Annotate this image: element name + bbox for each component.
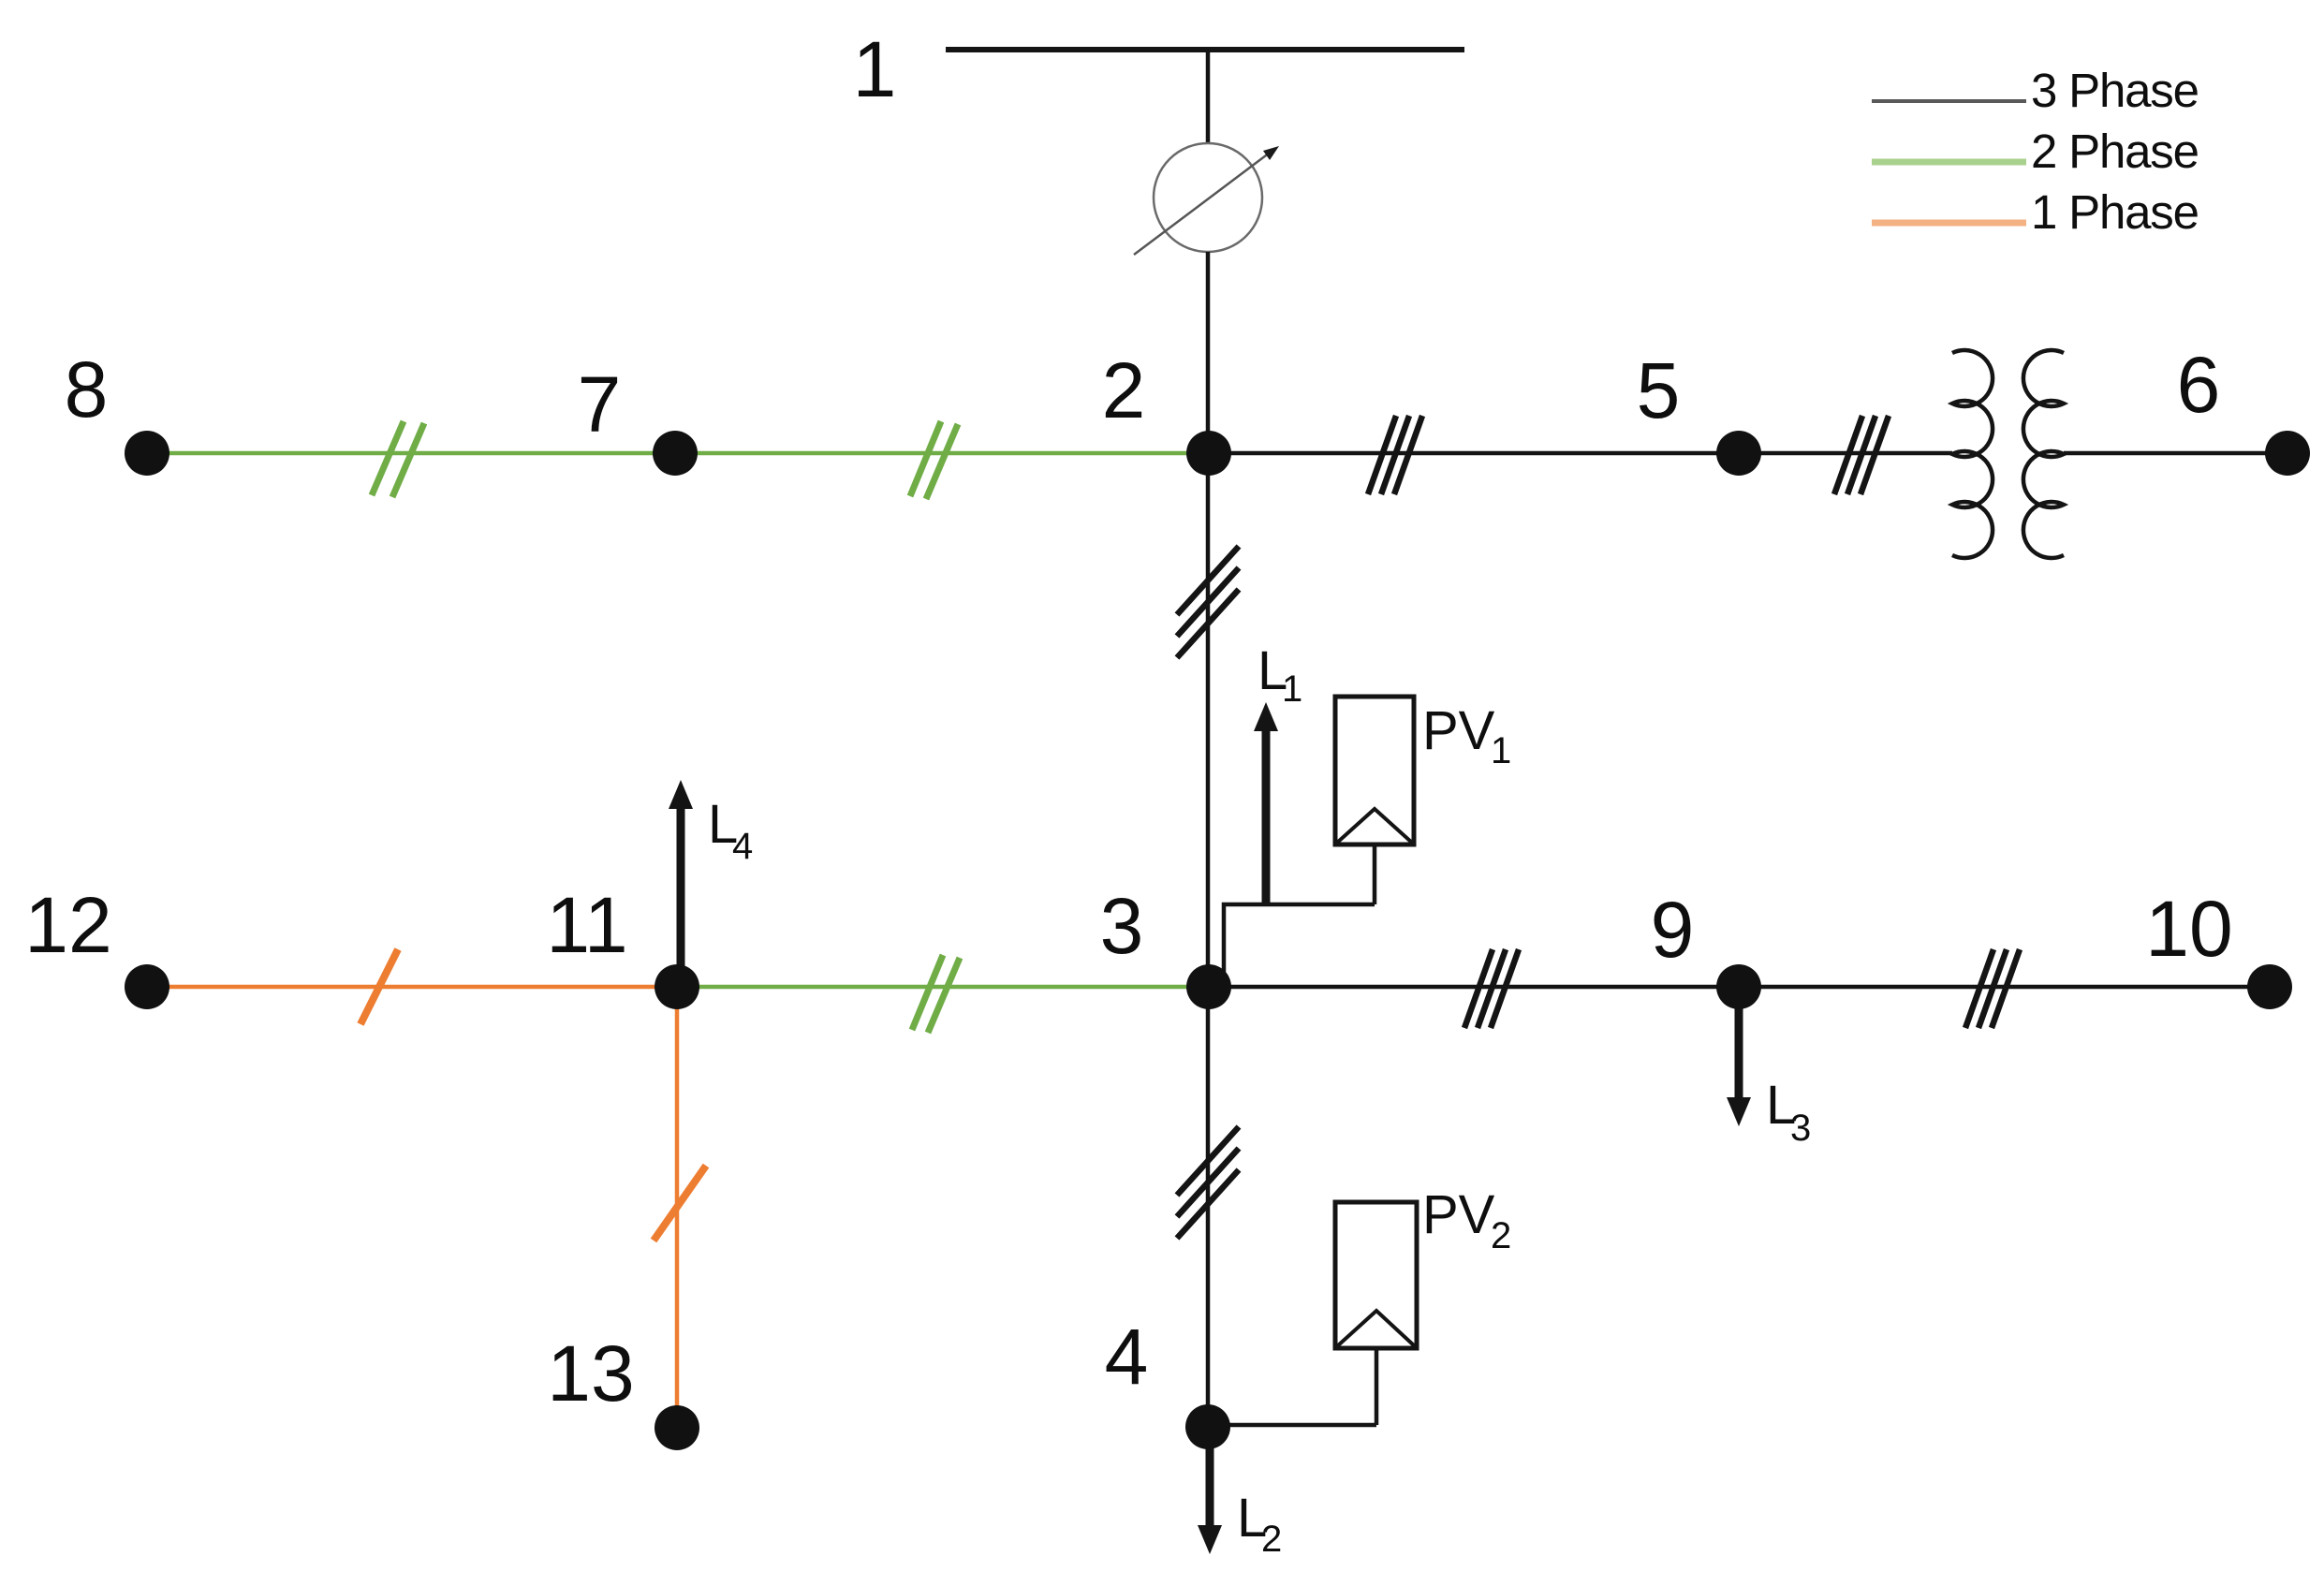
node 5 xyxy=(1716,431,1761,476)
ticks 2-phase between 8 and 7 xyxy=(372,421,424,497)
svg-text:2: 2 xyxy=(1491,1215,1511,1256)
svg-text:13: 13 xyxy=(547,1329,634,1417)
ticks 3-phase on wire 2-3 xyxy=(1177,547,1239,658)
svg-text:1: 1 xyxy=(1282,668,1302,710)
svg-text:2: 2 xyxy=(1261,1519,1282,1560)
ticks 2-phase between 11 and 3 xyxy=(912,955,960,1033)
wire busbar to regulator xyxy=(1206,50,1211,144)
svg-text:1: 1 xyxy=(853,25,897,113)
node 2 xyxy=(1186,431,1231,476)
transformer T1 primary winding xyxy=(1952,350,1993,558)
wire node2 to node3 (3 phase) xyxy=(1206,453,1211,987)
legend 1 phase sample line xyxy=(1872,220,2026,227)
ticks 3-phase on wire 3-4 xyxy=(1177,1127,1239,1239)
svg-text:1: 1 xyxy=(1491,730,1511,771)
node 12 xyxy=(125,964,169,1009)
node 10 xyxy=(2247,964,2292,1009)
legend 3 phase sample line xyxy=(1872,99,2026,103)
PV2 chevron xyxy=(1337,1311,1415,1346)
svg-text:PV: PV xyxy=(1422,700,1495,761)
ticks 3-phase between 2 and 5 xyxy=(1368,416,1422,494)
voltage regulator arrow xyxy=(1134,153,1270,255)
tick 1-phase between 12 and 11 xyxy=(360,949,398,1024)
node 7 xyxy=(653,431,698,476)
ticks 3-phase between 3 and 9 xyxy=(1464,949,1519,1028)
PV2 generator box xyxy=(1335,1202,1417,1348)
svg-text:PV: PV xyxy=(1422,1184,1495,1245)
PV1 generator box xyxy=(1335,697,1414,844)
node 9 xyxy=(1716,964,1761,1009)
svg-text:3: 3 xyxy=(1790,1108,1811,1149)
svg-text:3 Phase: 3 Phase xyxy=(2031,64,2199,117)
wire PV1/L1 elbow to node3 xyxy=(1224,904,1375,974)
svg-text:2 Phase: 2 Phase xyxy=(2031,125,2199,178)
load L1 arrow xyxy=(1262,728,1271,904)
svg-text:3: 3 xyxy=(1100,882,1144,970)
node 11 xyxy=(655,964,699,1009)
bus 1 busbar xyxy=(946,47,1464,52)
PV1 stem xyxy=(1373,844,1377,904)
node 13 xyxy=(655,1405,699,1450)
svg-text:4: 4 xyxy=(732,826,753,867)
wire node3 to node4 (3 phase) xyxy=(1206,987,1211,1427)
wire node8 to node2 (2 phase green) xyxy=(147,451,1209,456)
svg-text:9: 9 xyxy=(1651,886,1695,974)
svg-text:5: 5 xyxy=(1637,346,1681,434)
wire regulator to node 2 xyxy=(1206,252,1211,453)
svg-text:4: 4 xyxy=(1105,1313,1149,1401)
svg-text:1 Phase: 1 Phase xyxy=(2031,185,2199,239)
svg-text:8: 8 xyxy=(65,345,109,433)
svg-text:6: 6 xyxy=(2177,341,2221,429)
svg-text:11: 11 xyxy=(546,881,627,969)
ticks 2-phase between 7 and 2 xyxy=(910,421,958,499)
wire transformer to node6 xyxy=(2064,451,2287,456)
load L4 arrow xyxy=(677,807,685,977)
svg-text:2: 2 xyxy=(1102,346,1146,434)
legend 2 phase sample line xyxy=(1872,159,2026,166)
voltage regulator VR circle xyxy=(1154,143,1262,252)
PV2 stem xyxy=(1375,1348,1379,1425)
node 8 xyxy=(125,431,169,476)
node 6 xyxy=(2265,431,2310,476)
svg-text:7: 7 xyxy=(578,360,622,448)
svg-text:12: 12 xyxy=(24,881,111,969)
transformer T1 secondary winding xyxy=(2023,350,2064,558)
wire node3 to node10 (3 phase) xyxy=(1209,985,2270,990)
ticks 3-phase between 9 and 10 xyxy=(1965,949,2020,1028)
node 3 xyxy=(1186,964,1231,1009)
wire node2 to transformer (3 phase) xyxy=(1209,451,1952,456)
node 4 xyxy=(1185,1404,1230,1449)
wire node11 to node3 (2 phase green) xyxy=(677,985,1209,990)
wire node11 to node13 (1 phase orange) xyxy=(675,987,680,1428)
ticks 3-phase between 5 and transformer xyxy=(1834,416,1889,494)
wire node12 to node11 (1 phase orange) xyxy=(147,985,677,990)
svg-text:10: 10 xyxy=(2145,885,2232,973)
load L3 arrow xyxy=(1735,1006,1743,1098)
PV1 chevron xyxy=(1337,809,1412,843)
load L2 arrow xyxy=(1206,1442,1214,1527)
tick 1-phase between 11 and 13 xyxy=(654,1166,706,1241)
wire PV2 elbow to node4 xyxy=(1208,1423,1376,1428)
